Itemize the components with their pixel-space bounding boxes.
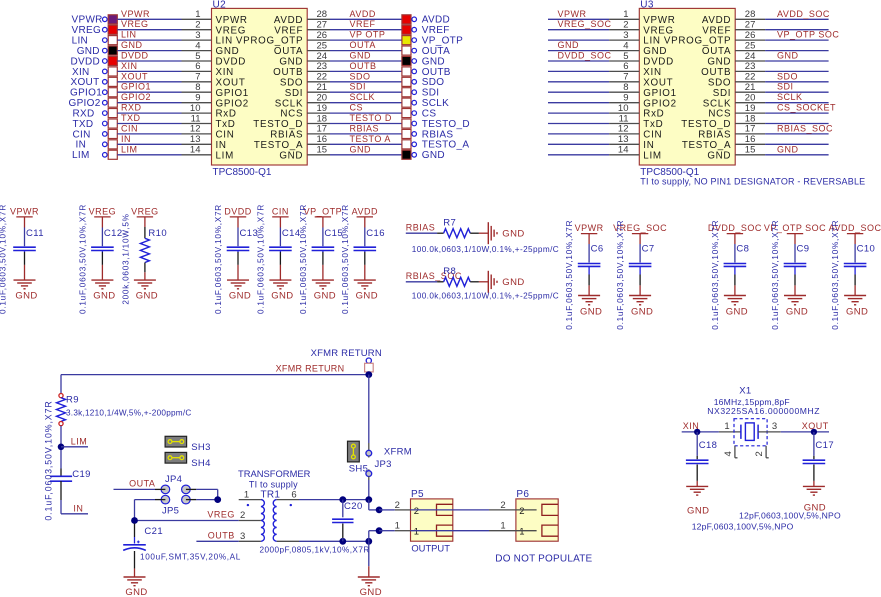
svg-text:XIN: XIN <box>683 421 700 431</box>
svg-text:TI to supply: TI to supply <box>249 480 298 490</box>
svg-text:VREG: VREG <box>207 510 235 520</box>
svg-text:NCS: NCS <box>280 109 303 120</box>
svg-text:1: 1 <box>623 9 628 20</box>
svg-text:100.0k,0603,1/10W,0.1%,+-25ppm: 100.0k,0603,1/10W,0.1%,+-25ppm/C <box>412 245 559 254</box>
svg-text:U2: U2 <box>213 0 227 10</box>
svg-text:13: 13 <box>618 134 629 145</box>
svg-text:GPIO2: GPIO2 <box>643 98 676 109</box>
svg-text:VREG: VREG <box>216 25 247 36</box>
svg-text:27: 27 <box>745 20 756 31</box>
svg-text:GND: GND <box>846 307 868 318</box>
svg-text:XIN: XIN <box>643 67 661 78</box>
svg-text:GND: GND <box>125 587 147 597</box>
svg-text:C8: C8 <box>736 243 749 254</box>
svg-text:SDO: SDO <box>422 77 445 88</box>
svg-text:3: 3 <box>240 531 245 542</box>
svg-text:GND: GND <box>726 307 748 318</box>
svg-text:C6: C6 <box>591 243 604 254</box>
svg-text:VREF: VREF <box>422 25 450 36</box>
svg-text:SCLK: SCLK <box>703 98 731 109</box>
svg-text:GND: GND <box>93 290 115 301</box>
svg-text:26: 26 <box>745 30 756 41</box>
svg-text:AVDD: AVDD <box>352 206 378 216</box>
svg-text:XFMR RETURN: XFMR RETURN <box>311 348 382 359</box>
svg-text:VPWR: VPWR <box>216 15 248 26</box>
svg-text:C21: C21 <box>144 526 163 537</box>
svg-text:VPWR: VPWR <box>575 223 604 233</box>
svg-text:VPWR: VPWR <box>121 9 150 19</box>
svg-text:GND: GND <box>643 46 667 57</box>
svg-text:SH3: SH3 <box>191 442 210 453</box>
svg-text:2: 2 <box>195 20 200 31</box>
svg-text:R8: R8 <box>443 266 456 277</box>
svg-text:14: 14 <box>190 145 201 156</box>
svg-text:C14: C14 <box>282 228 301 239</box>
svg-text:27: 27 <box>317 20 328 31</box>
svg-text:20: 20 <box>317 93 328 104</box>
svg-text:SDO: SDO <box>777 71 798 81</box>
svg-text:TPC8500-Q1: TPC8500-Q1 <box>213 167 272 178</box>
svg-text:OUTB: OUTB <box>350 61 377 71</box>
svg-text:LIN: LIN <box>121 30 137 40</box>
svg-text:RxD: RxD <box>216 109 237 120</box>
svg-text:VREG: VREG <box>89 206 117 216</box>
svg-text:CIN: CIN <box>643 130 662 141</box>
svg-text:GND: GND <box>777 144 799 154</box>
svg-text:RBIAS: RBIAS <box>422 129 454 140</box>
svg-text:LIM: LIM <box>72 150 90 161</box>
svg-text:VPWR: VPWR <box>72 15 103 26</box>
svg-text:OUTB: OUTB <box>422 67 451 78</box>
svg-text:R9: R9 <box>66 395 79 406</box>
svg-text:TR1: TR1 <box>261 489 281 500</box>
svg-text:CIN: CIN <box>272 206 289 216</box>
svg-text:LIM: LIM <box>216 150 234 161</box>
svg-text:3: 3 <box>772 421 777 432</box>
svg-text:LIN: LIN <box>643 36 660 47</box>
svg-text:GND: GND <box>77 46 100 57</box>
svg-text:GND: GND <box>502 277 524 288</box>
svg-text:VP OTP: VP OTP <box>350 30 386 40</box>
svg-text:GND: GND <box>15 290 37 301</box>
svg-text:23: 23 <box>317 61 328 72</box>
svg-text:XIN: XIN <box>216 67 234 78</box>
svg-text:23: 23 <box>745 61 756 72</box>
svg-text:NCS: NCS <box>708 109 731 120</box>
svg-text:4: 4 <box>623 40 628 51</box>
svg-text:GND: GND <box>786 307 808 318</box>
svg-text:TESTO_A: TESTO_A <box>682 140 731 151</box>
svg-text:13: 13 <box>190 134 201 145</box>
svg-text:25: 25 <box>317 40 328 51</box>
svg-text:GND: GND <box>631 307 653 318</box>
svg-text:SDO: SDO <box>350 71 371 81</box>
svg-text:VPROG_OTP: VPROG_OTP <box>664 36 731 47</box>
svg-text:DVDD: DVDD <box>643 57 674 68</box>
svg-text:OUTA: OUTA <box>274 46 303 57</box>
svg-text:VREG_SOC: VREG_SOC <box>558 19 612 29</box>
svg-text:9: 9 <box>195 93 200 104</box>
svg-text:IN: IN <box>216 140 227 151</box>
svg-text:VPWR: VPWR <box>558 9 587 19</box>
svg-text:GND: GND <box>350 144 372 154</box>
svg-text:0.1uF,0603,50V,10%,X7R: 0.1uF,0603,50V,10%,X7R <box>565 220 574 330</box>
svg-text:GPIO2: GPIO2 <box>121 92 151 102</box>
svg-text:200k,0603,1/10W,5%: 200k,0603,1/10W,5% <box>121 213 130 304</box>
svg-text:0.1uF,0603,50V,10%,X7R: 0.1uF,0603,50V,10%,X7R <box>771 220 780 330</box>
svg-text:1: 1 <box>244 489 249 500</box>
svg-text:TXD: TXD <box>121 113 141 123</box>
svg-text:C17: C17 <box>815 440 834 451</box>
svg-text:RBIAS: RBIAS <box>406 223 436 233</box>
svg-text:GND: GND <box>229 290 251 301</box>
svg-text:JP5: JP5 <box>162 505 179 516</box>
svg-text:1: 1 <box>414 527 419 538</box>
svg-text:0.1uF,0603,50V,10%,X7R: 0.1uF,0603,50V,10%,X7R <box>0 204 8 314</box>
svg-text:8: 8 <box>195 82 200 93</box>
svg-text:C7: C7 <box>642 243 655 254</box>
svg-text:SDI: SDI <box>777 82 794 92</box>
svg-text:15: 15 <box>745 145 756 156</box>
svg-text:GND: GND <box>558 40 580 50</box>
svg-text:5: 5 <box>195 51 200 62</box>
svg-text:DO NOT POPULATE: DO NOT POPULATE <box>495 553 592 564</box>
svg-text:21: 21 <box>745 82 756 93</box>
svg-text:SDI: SDI <box>350 82 367 92</box>
svg-text:2: 2 <box>240 510 245 521</box>
svg-text:SDO: SDO <box>280 77 303 88</box>
svg-text:12: 12 <box>618 124 629 135</box>
svg-text:C13: C13 <box>240 228 259 239</box>
svg-text:VREG: VREG <box>131 206 159 216</box>
svg-text:GND: GND <box>136 290 158 301</box>
svg-text:24: 24 <box>317 51 328 62</box>
svg-text:11: 11 <box>619 113 629 124</box>
svg-text:0.1uF,0603,50V,10%,X7R: 0.1uF,0603,50V,10%,X7R <box>44 400 54 520</box>
svg-text:TESTO D: TESTO D <box>350 113 392 123</box>
svg-text:AVDD: AVDD <box>274 15 303 26</box>
svg-text:GND: GND <box>216 46 240 57</box>
svg-text:GPIO2: GPIO2 <box>69 98 101 109</box>
svg-text:DVDD: DVDD <box>121 51 149 61</box>
svg-text:7: 7 <box>195 72 200 83</box>
svg-text:TxD: TxD <box>216 119 236 130</box>
svg-text:GPIO1: GPIO1 <box>643 88 676 99</box>
svg-text:SDI: SDI <box>422 88 440 99</box>
svg-text:C20: C20 <box>344 501 363 512</box>
svg-text:12: 12 <box>190 124 201 135</box>
svg-text:0.1uF,0603,50V,10%,X7R: 0.1uF,0603,50V,10%,X7R <box>214 204 223 314</box>
svg-text:CS: CS <box>350 103 364 113</box>
svg-text:C11: C11 <box>26 228 44 239</box>
svg-text:GND: GND <box>271 290 293 301</box>
svg-text:XIN: XIN <box>72 67 90 78</box>
svg-text:LIN: LIN <box>216 36 233 47</box>
svg-text:20: 20 <box>745 93 756 104</box>
svg-text:OUTA: OUTA <box>129 479 155 489</box>
svg-text:TXD: TXD <box>73 119 94 130</box>
svg-text:1: 1 <box>724 421 729 432</box>
svg-text:SDO: SDO <box>708 77 731 88</box>
svg-text:16: 16 <box>317 134 328 145</box>
svg-text:2: 2 <box>414 506 419 517</box>
svg-text:IN: IN <box>73 503 83 513</box>
svg-text:6: 6 <box>195 61 200 72</box>
svg-text:XIN: XIN <box>121 61 138 71</box>
svg-text:SDI: SDI <box>713 88 731 99</box>
svg-text:IN: IN <box>643 140 654 151</box>
svg-text:RXD: RXD <box>73 109 95 120</box>
svg-text:GPIO1: GPIO1 <box>121 82 151 92</box>
svg-text:C12: C12 <box>104 228 123 239</box>
svg-text:DVDD: DVDD <box>216 57 247 68</box>
svg-text:VP_OTP: VP_OTP <box>304 206 343 216</box>
svg-text:100uF,SMT,35V,20%,AL: 100uF,SMT,35V,20%,AL <box>140 553 241 562</box>
svg-text:2: 2 <box>623 20 628 31</box>
svg-text:0.1uF,0603,50V,10%,X7R: 0.1uF,0603,50V,10%,X7R <box>78 204 87 314</box>
svg-text:25: 25 <box>745 40 756 51</box>
svg-text:2: 2 <box>519 506 524 517</box>
svg-text:17: 17 <box>317 124 328 135</box>
svg-text:3: 3 <box>623 30 628 41</box>
svg-text:P6: P6 <box>516 489 529 500</box>
svg-text:OUTB: OUTB <box>208 531 235 541</box>
svg-text:RxD: RxD <box>643 109 664 120</box>
svg-text:AVDD_SOC: AVDD_SOC <box>777 9 830 19</box>
svg-text:9: 9 <box>623 93 628 104</box>
svg-text:OUTA: OUTA <box>702 46 731 57</box>
svg-text:GND: GND <box>580 307 602 318</box>
svg-text:TESTO_D: TESTO_D <box>422 119 470 130</box>
svg-text:12pF,0603,100V,5%,NPO: 12pF,0603,100V,5%,NPO <box>692 521 794 531</box>
svg-text:U3: U3 <box>640 0 654 10</box>
svg-text:JP4: JP4 <box>165 474 182 485</box>
svg-text:TxD: TxD <box>643 119 663 130</box>
svg-text:0.1uF,0603,50V,10%,X7R: 0.1uF,0603,50V,10%,X7R <box>341 204 350 314</box>
svg-text:TESTO_A: TESTO_A <box>422 140 470 151</box>
svg-text:GND: GND <box>279 57 303 68</box>
svg-text:DVDD_SOC: DVDD_SOC <box>558 51 612 61</box>
svg-text:7: 7 <box>623 72 628 83</box>
svg-text:22: 22 <box>745 72 756 83</box>
svg-text:GND: GND <box>279 150 303 161</box>
svg-text:GND: GND <box>422 150 445 161</box>
svg-text:4: 4 <box>723 451 734 456</box>
svg-text:19: 19 <box>745 103 756 114</box>
svg-text:VP_OTP SOC: VP_OTP SOC <box>777 30 839 40</box>
svg-text:12pF,0603,100V,5%,NPO: 12pF,0603,100V,5%,NPO <box>739 510 841 520</box>
svg-text:15: 15 <box>317 145 328 156</box>
svg-text:XOUT: XOUT <box>643 77 673 88</box>
svg-text:24: 24 <box>745 51 756 62</box>
svg-text:OUTA: OUTA <box>422 46 450 57</box>
svg-text:R10: R10 <box>148 228 167 239</box>
svg-text:AVDD: AVDD <box>422 15 450 26</box>
svg-text:VREG: VREG <box>121 19 149 29</box>
svg-text:XFMR RETURN: XFMR RETURN <box>276 364 345 374</box>
svg-text:OUTB: OUTB <box>273 67 303 78</box>
svg-text:21: 21 <box>317 82 328 93</box>
svg-text:RBIAS_SOC: RBIAS_SOC <box>777 123 833 133</box>
svg-text:RXD: RXD <box>121 103 142 113</box>
svg-text:X1: X1 <box>739 386 751 397</box>
svg-text:RBIAS: RBIAS <box>350 123 380 133</box>
svg-text:28: 28 <box>317 9 328 20</box>
svg-text:RBIAS: RBIAS <box>270 130 303 141</box>
svg-text:GND: GND <box>687 506 709 517</box>
svg-text:OUTPUT: OUTPUT <box>411 542 450 553</box>
svg-text:6: 6 <box>623 61 628 72</box>
svg-text:19: 19 <box>317 103 328 114</box>
svg-text:TESTO_D: TESTO_D <box>253 119 303 130</box>
svg-text:LIM: LIM <box>121 144 138 154</box>
svg-text:14: 14 <box>618 145 629 156</box>
svg-text:TESTO A: TESTO A <box>350 134 391 144</box>
svg-text:0.1uF,0603,50V,10%,X7R: 0.1uF,0603,50V,10%,X7R <box>616 220 625 330</box>
svg-text:P5: P5 <box>411 489 424 500</box>
svg-text:2000pF,0805,1kV,10%,X7R: 2000pF,0805,1kV,10%,X7R <box>260 545 370 554</box>
svg-text:0.1uF,0603,50V,10%,X7R: 0.1uF,0603,50V,10%,X7R <box>299 204 308 314</box>
svg-text:GND: GND <box>314 290 336 301</box>
svg-text:GPIO1: GPIO1 <box>70 88 102 99</box>
svg-text:OUTB: OUTB <box>701 67 731 78</box>
svg-text:SCLK: SCLK <box>350 92 376 102</box>
svg-text:5: 5 <box>623 51 628 62</box>
svg-text:16: 16 <box>745 134 756 145</box>
svg-text:VREF: VREF <box>702 25 731 36</box>
svg-text:OUTA: OUTA <box>350 40 376 50</box>
svg-text:LIM: LIM <box>71 437 88 447</box>
svg-text:SH5: SH5 <box>349 463 368 474</box>
svg-text:26: 26 <box>317 30 328 41</box>
svg-text:GND: GND <box>121 40 143 50</box>
svg-text:GND: GND <box>707 150 731 161</box>
svg-text:GND: GND <box>360 587 382 597</box>
svg-text:CIN: CIN <box>121 123 138 133</box>
svg-text:3: 3 <box>195 30 200 41</box>
svg-text:XOUT: XOUT <box>121 71 148 81</box>
svg-text:SCLK: SCLK <box>777 92 803 102</box>
svg-text:VPROG_OTP: VPROG_OTP <box>236 36 303 47</box>
svg-text:VPWR: VPWR <box>643 15 675 26</box>
svg-text:18: 18 <box>745 113 756 124</box>
svg-text:22: 22 <box>317 72 328 83</box>
svg-text:C18: C18 <box>699 440 718 451</box>
svg-text:0.1uF,0603,50V,10%,X7R: 0.1uF,0603,50V,10%,X7R <box>711 220 720 330</box>
svg-text:GND: GND <box>356 290 378 301</box>
svg-text:VREG: VREG <box>72 25 102 36</box>
svg-text:18: 18 <box>317 113 328 124</box>
svg-text:2: 2 <box>754 451 765 456</box>
svg-text:GPIO1: GPIO1 <box>216 88 249 99</box>
svg-text:C10: C10 <box>857 243 876 254</box>
svg-text:GND: GND <box>777 51 799 61</box>
svg-text:LIM: LIM <box>643 150 661 161</box>
svg-text:VREF: VREF <box>350 19 376 29</box>
svg-text:CIN: CIN <box>216 130 235 141</box>
svg-text:TESTO_A: TESTO_A <box>254 140 303 151</box>
svg-text:100.0k,0603,1/10W,0.1%,+-25ppm: 100.0k,0603,1/10W,0.1%,+-25ppm/C <box>412 291 559 300</box>
svg-text:3.3k,1210,1/4W,5%,+-200ppm/C: 3.3k,1210,1/4W,5%,+-200ppm/C <box>66 408 192 417</box>
svg-text:XOUT: XOUT <box>802 421 829 431</box>
svg-text:10: 10 <box>618 103 629 114</box>
svg-text:NX3225SA16.000000MHZ: NX3225SA16.000000MHZ <box>707 406 820 416</box>
svg-text:JP3: JP3 <box>375 459 392 470</box>
svg-text:DVDD: DVDD <box>224 206 252 216</box>
svg-text:0.1uF,0603,50V,10%,X7R: 0.1uF,0603,50V,10%,X7R <box>256 204 265 314</box>
svg-text:VPWR: VPWR <box>10 206 39 216</box>
svg-text:XOUT: XOUT <box>71 77 100 88</box>
svg-text:XOUT: XOUT <box>216 77 246 88</box>
svg-text:28: 28 <box>745 9 756 20</box>
svg-text:SDI: SDI <box>285 88 303 99</box>
svg-text:CS: CS <box>422 109 437 120</box>
svg-text:17: 17 <box>745 124 756 135</box>
svg-text:LIN: LIN <box>72 36 88 47</box>
svg-text:VREG: VREG <box>643 25 674 36</box>
svg-text:10: 10 <box>190 103 201 114</box>
svg-text:TRANSFORMER: TRANSFORMER <box>238 468 311 479</box>
svg-text:GND: GND <box>350 51 372 61</box>
svg-text:GND: GND <box>707 57 731 68</box>
svg-text:TI to supply, NO PIN1 DESIGNAT: TI to supply, NO PIN1 DESIGNATOR - REVER… <box>640 177 865 187</box>
svg-text:C9: C9 <box>797 243 810 254</box>
svg-text:1: 1 <box>519 527 524 538</box>
svg-text:XFRM: XFRM <box>384 446 412 457</box>
svg-text:GND: GND <box>502 228 524 239</box>
svg-text:SCLK: SCLK <box>275 98 303 109</box>
svg-text:SH4: SH4 <box>191 458 210 469</box>
svg-text:0.1uF,0603,50V,10%,X7R: 0.1uF,0603,50V,10%,X7R <box>831 220 840 330</box>
svg-text:C19: C19 <box>72 469 91 480</box>
svg-text:TESTO_D: TESTO_D <box>681 119 731 130</box>
svg-text:8: 8 <box>623 82 628 93</box>
svg-text:AVDD: AVDD <box>350 9 376 19</box>
svg-text:CS_SOCKET: CS_SOCKET <box>777 103 836 113</box>
svg-text:4: 4 <box>195 40 200 51</box>
svg-text:GPIO2: GPIO2 <box>216 98 249 109</box>
svg-text:AVDD: AVDD <box>702 15 731 26</box>
svg-text:IN: IN <box>76 140 87 151</box>
svg-text:VP_OTP: VP_OTP <box>422 36 463 47</box>
svg-text:CIN: CIN <box>73 129 91 140</box>
svg-text:RBIAS: RBIAS <box>698 130 731 141</box>
svg-text:C16: C16 <box>366 228 385 239</box>
svg-text:1: 1 <box>195 9 200 20</box>
svg-text:IN: IN <box>121 134 131 144</box>
svg-text:GND: GND <box>422 56 445 67</box>
svg-text:DVDD: DVDD <box>71 56 101 67</box>
svg-text:VREF: VREF <box>274 25 303 36</box>
svg-text:11: 11 <box>191 113 201 124</box>
svg-text:R7: R7 <box>443 218 456 229</box>
svg-text:SCLK: SCLK <box>422 98 449 109</box>
